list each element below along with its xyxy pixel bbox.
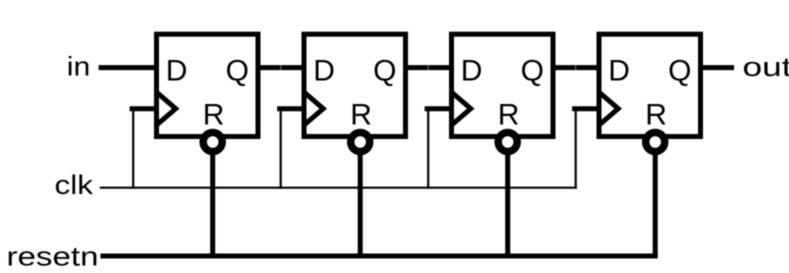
wire clk horizontal bus [100,187,577,189]
svg-text:Q: Q [373,55,396,88]
wire U1.Q to U2.D [257,65,306,70]
svg-text:clk: clk [55,170,94,200]
U4 reset bubble (active-low R) [646,133,665,152]
D flip-flop U4 [599,34,701,136]
wire clk riser for U3 [427,109,429,189]
svg-text:R: R [350,99,372,132]
wire U2.R stem to resetn [358,148,363,256]
svg-text:in: in [67,51,91,81]
svg-text:resetn: resetn [7,241,99,271]
svg-text:Q: Q [226,55,249,88]
U1 clock edge triangle [157,92,176,125]
wire resetn horizontal bus [101,254,658,259]
wire U3.Q to U4.D [552,65,601,70]
D flip-flop U2 [304,34,406,136]
wire clk stub to U4 clock pin [572,106,599,111]
U2 reset bubble (active-low R) [351,133,370,152]
svg-text:R: R [203,99,225,132]
D flip-flop U3 [452,34,554,136]
wire U4.Q to out [699,65,734,70]
D flip-flop U1 [157,34,259,136]
svg-text:Q: Q [521,55,544,88]
svg-text:D: D [166,55,188,88]
U3 clock edge triangle [452,92,471,125]
svg-text:R: R [645,99,667,132]
wire clk stub to U3 clock pin [425,106,452,111]
svg-text:Q: Q [668,55,691,88]
svg-text:D: D [313,55,335,88]
wire clk stub to U2 clock pin [277,106,304,111]
svg-text:out: out [743,52,789,82]
U4 clock edge triangle [599,92,618,125]
wire clk riser for U4 [575,109,577,189]
wire in to U1.D [99,65,159,70]
wire U3.R stem to resetn [505,148,510,256]
wire clk riser for U2 [280,109,282,189]
wire U1.R stem to resetn [210,148,215,256]
wire clk riser for U1 [132,109,134,189]
svg-text:D: D [461,55,483,88]
wire clk stub to U1 clock pin [130,106,157,111]
U3 reset bubble (active-low R) [498,133,517,152]
U1 reset bubble (active-low R) [203,133,222,152]
svg-text:D: D [608,55,630,88]
wire U2.Q to U3.D [404,65,453,70]
svg-text:R: R [498,99,520,132]
wire U4.R stem to resetn [653,148,658,256]
U2 clock edge triangle [304,92,323,125]
